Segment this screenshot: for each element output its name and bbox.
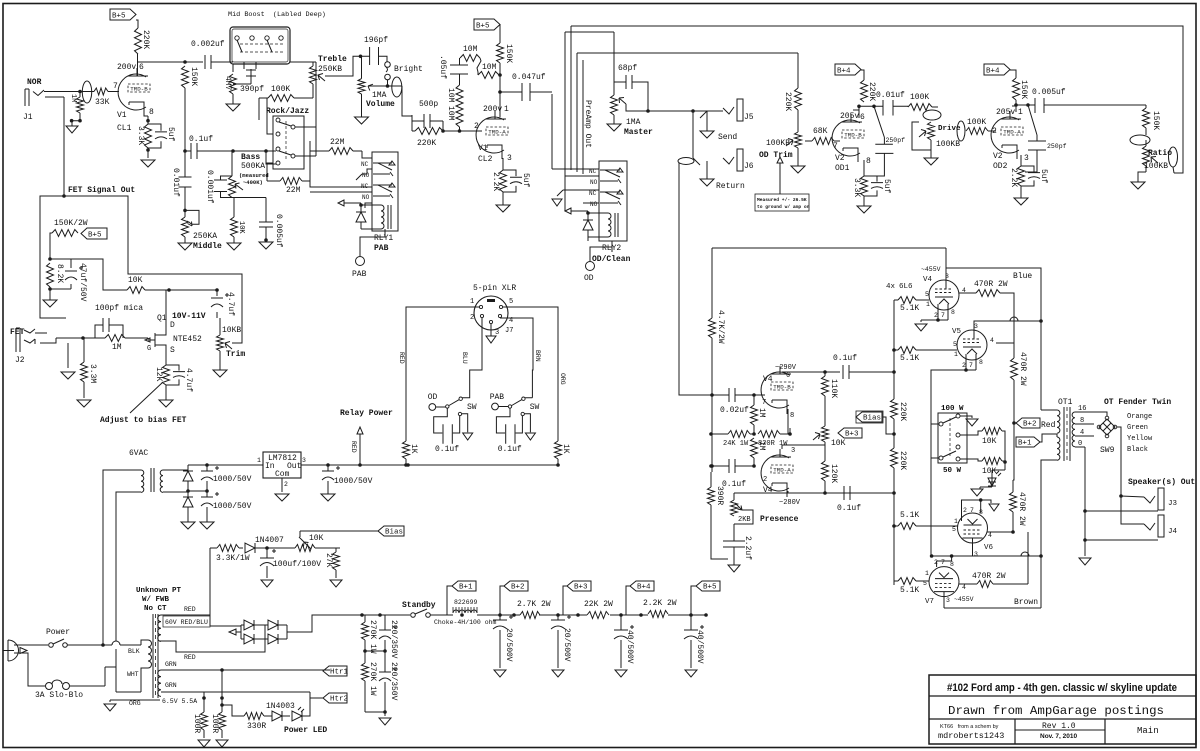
relay RLY2 box bbox=[599, 161, 627, 241]
tube V7 6L6 (inverted) bbox=[929, 567, 959, 597]
capacitor 4.7uf (fet out) bbox=[216, 290, 218, 318]
svg-text:100R: 100R bbox=[210, 714, 219, 733]
svg-text:J5: J5 bbox=[744, 113, 754, 122]
flag B+5 (fet) bbox=[81, 228, 107, 239]
wire B+5 to 220K bbox=[136, 20, 138, 28]
flag B+3 (supply) bbox=[567, 581, 591, 591]
sec taps bbox=[1075, 412, 1094, 540]
svg-text:W/ FWB: W/ FWB bbox=[142, 596, 170, 604]
svg-text:Yellow: Yellow bbox=[1127, 435, 1153, 443]
svg-text:RLY1: RLY1 bbox=[374, 234, 393, 243]
wire V5 plate bbox=[974, 321, 1041, 330]
ground (cap bottom) bbox=[200, 522, 214, 529]
RLY2 contacts bbox=[600, 170, 620, 203]
svg-text:10M: 10M bbox=[463, 45, 478, 54]
svg-text:ORG: ORG bbox=[129, 700, 141, 707]
ground (middle pot) bbox=[184, 237, 186, 243]
ground (master) bbox=[607, 124, 621, 131]
svg-text:In: In bbox=[265, 462, 275, 471]
capacitor 250pf (od2) bbox=[1025, 105, 1046, 172]
wire fuse right bbox=[70, 649, 141, 692]
resistor 2.2K 2W bbox=[648, 611, 668, 618]
LED (sw) bbox=[988, 478, 996, 487]
wire plate node right bbox=[185, 61, 203, 63]
switch levers bbox=[943, 417, 956, 457]
svg-text:FET: FET bbox=[10, 328, 25, 337]
tube V2 OD1 triode TRD-B bbox=[832, 120, 860, 156]
wire LM out rail bbox=[301, 464, 360, 466]
tube V1a triode TRD-B bbox=[118, 74, 146, 110]
svg-text:1N4007: 1N4007 bbox=[255, 536, 284, 545]
resistor 470R 2W (V4 screen) bbox=[976, 290, 1000, 297]
svg-text:0.01uf: 0.01uf bbox=[171, 168, 180, 197]
svg-text:5uf: 5uf bbox=[521, 173, 530, 188]
svg-text:1K: 1K bbox=[561, 444, 570, 454]
ground (20/500 1) bbox=[494, 670, 506, 677]
svg-text:220/350V: 220/350V bbox=[389, 662, 398, 701]
jack J5 Send bbox=[723, 107, 734, 114]
svg-text:B+4: B+4 bbox=[637, 584, 651, 592]
wire bias to bus bbox=[883, 417, 894, 434]
resistor 220K (V6/V7 grid lower) bbox=[891, 448, 898, 468]
svg-text:1M: 1M bbox=[757, 441, 766, 451]
ground (V1a cathode) bbox=[141, 160, 155, 167]
svg-text:8: 8 bbox=[1080, 417, 1084, 425]
resistor 150K (ratio top) bbox=[1143, 108, 1150, 128]
ground (V1b cathode) bbox=[496, 205, 510, 212]
box 2KB presence wiper bbox=[734, 510, 753, 524]
resistor 470R 2W (V5 screen vert) bbox=[1011, 358, 1018, 380]
title divider1 bbox=[929, 695, 1196, 697]
svg-text:Bias: Bias bbox=[385, 529, 403, 537]
wire od1 plate node bbox=[853, 106, 883, 118]
svg-text:8: 8 bbox=[951, 309, 955, 316]
svg-text:Q1: Q1 bbox=[157, 314, 167, 323]
flag Htr2 bbox=[323, 693, 347, 703]
svg-text:Htr2: Htr2 bbox=[330, 696, 348, 704]
plug AC power bbox=[3, 640, 19, 661]
svg-text:6: 6 bbox=[860, 113, 865, 122]
ground (LM7812) bbox=[281, 478, 283, 492]
svg-text:(measured: (measured bbox=[239, 172, 269, 179]
svg-text:40/500V: 40/500V bbox=[625, 630, 634, 664]
pot Master 1MA bbox=[611, 95, 618, 115]
svg-text:100R: 100R bbox=[192, 714, 201, 733]
svg-text:NOR: NOR bbox=[27, 78, 42, 87]
svg-text:0.001uf: 0.001uf bbox=[205, 170, 214, 204]
wire switch common bbox=[931, 424, 938, 458]
wire return line bbox=[693, 111, 700, 165]
svg-text:470R 2W: 470R 2W bbox=[1017, 492, 1026, 526]
resistor 390R bbox=[708, 487, 715, 505]
capacitor 220/350V (1) bbox=[379, 625, 397, 639]
diode D1 (relay supply) bbox=[183, 471, 193, 481]
svg-text:16: 16 bbox=[1078, 405, 1086, 413]
svg-text:10K: 10K bbox=[982, 467, 997, 476]
svg-text:10K: 10K bbox=[309, 534, 324, 543]
svg-text:10V-11V: 10V-11V bbox=[172, 312, 206, 321]
leader line adjust bbox=[130, 382, 163, 413]
svg-text:8: 8 bbox=[866, 157, 871, 166]
resistor 150K (od2 plate) bbox=[1013, 78, 1020, 100]
switch dashed bbox=[949, 418, 951, 458]
svg-text:mdroberts1243: mdroberts1243 bbox=[938, 731, 1004, 741]
fuse 3A Slo-Blo bbox=[46, 683, 53, 690]
svg-text:4.7K/2W: 4.7K/2W bbox=[716, 310, 725, 344]
resistor 470R 2W (V7 screen) bbox=[977, 581, 993, 588]
ground (ORG shield) bbox=[104, 704, 116, 711]
wire V4l plate bbox=[782, 442, 825, 449]
ground (trim) bbox=[213, 370, 227, 377]
svg-text:150K/2W: 150K/2W bbox=[54, 219, 88, 228]
wire bundle v571 bbox=[570, 26, 572, 166]
flag Htr1 bbox=[323, 666, 347, 676]
pot Trim 10KB bbox=[217, 335, 224, 351]
resistor 270K 1W (2) bbox=[362, 663, 369, 681]
V6 cathode bracket bbox=[962, 500, 981, 521]
svg-text:1MA: 1MA bbox=[372, 91, 387, 100]
ground (J2 sleeve) bbox=[67, 343, 69, 368]
resistor 100K (midboost) bbox=[268, 95, 294, 102]
svg-text:5: 5 bbox=[952, 526, 956, 533]
svg-text:Relay Power: Relay Power bbox=[340, 409, 393, 418]
transformer OT1 secondary bbox=[1072, 412, 1075, 447]
svg-text:B+4: B+4 bbox=[986, 68, 1000, 76]
svg-text:220K: 220K bbox=[417, 139, 436, 148]
flag Bias (pi) bbox=[856, 412, 882, 422]
wire master top bbox=[613, 32, 615, 82]
svg-text:B+2: B+2 bbox=[1023, 421, 1037, 429]
svg-text:Nov. 7, 2010: Nov. 7, 2010 bbox=[1040, 733, 1077, 740]
svg-text:TRD-B: TRD-B bbox=[844, 132, 862, 139]
svg-text:50 W: 50 W bbox=[943, 467, 962, 475]
wire FET box loop bbox=[40, 196, 242, 343]
J2 contacts bbox=[24, 329, 35, 344]
transformer 6VAC primary bbox=[141, 470, 144, 492]
resistor 1M (input) bbox=[77, 97, 84, 113]
svg-text:10K: 10K bbox=[237, 221, 245, 234]
ground (presence) bbox=[728, 565, 740, 572]
svg-text:1000/50V: 1000/50V bbox=[213, 502, 252, 511]
resistor 5.1K (V7 grid) bbox=[898, 578, 916, 585]
svg-text:J4: J4 bbox=[1168, 528, 1178, 536]
bridge output bbox=[287, 615, 362, 632]
svg-text:250KB: 250KB bbox=[318, 65, 342, 74]
svg-text:4M7: 4M7 bbox=[223, 76, 232, 91]
resistor 220K (V1a plate) bbox=[135, 28, 142, 54]
jack J2 FET input bbox=[16, 328, 20, 352]
svg-text:220K: 220K bbox=[898, 402, 907, 421]
svg-text:150K: 150K bbox=[189, 67, 198, 86]
svg-text:ORG: ORG bbox=[559, 373, 566, 385]
svg-text:OD/Clean: OD/Clean bbox=[592, 255, 631, 264]
resistor 1K (left) bbox=[403, 441, 410, 459]
svg-text:6: 6 bbox=[139, 63, 144, 72]
title divider2 bbox=[929, 718, 1196, 720]
svg-text:110K: 110K bbox=[829, 379, 838, 398]
svg-text:7: 7 bbox=[970, 507, 974, 514]
ground (8.2K) bbox=[49, 289, 51, 300]
svg-text:SW9: SW9 bbox=[1100, 446, 1115, 455]
svg-text:TRD-A: TRD-A bbox=[488, 129, 506, 136]
svg-text:1MA: 1MA bbox=[626, 118, 641, 127]
svg-text:8: 8 bbox=[979, 359, 983, 366]
svg-text:NO: NO bbox=[590, 179, 598, 186]
svg-text:3.3K/1W: 3.3K/1W bbox=[216, 554, 250, 563]
resistor 10M (lower) bbox=[478, 72, 499, 79]
svg-text:6VAC: 6VAC bbox=[129, 449, 148, 458]
flag B+4 (od2) bbox=[984, 64, 1010, 75]
svg-text:4.7uf: 4.7uf bbox=[226, 292, 235, 316]
wire V4 cathode bbox=[921, 304, 948, 320]
switch Bright bbox=[385, 62, 391, 68]
ground (bias cap) bbox=[261, 580, 273, 587]
svg-text:4: 4 bbox=[990, 337, 994, 344]
wire j4 tip bbox=[1121, 496, 1144, 524]
capacitor 0.01uf bbox=[179, 177, 192, 187]
svg-text:250KA: 250KA bbox=[193, 232, 217, 241]
resistor 5.1K (V6 grid) bbox=[898, 523, 916, 530]
wire 0.1uf bbox=[185, 88, 276, 177]
svg-text:3.3M: 3.3M bbox=[88, 364, 97, 383]
svg-text:Treble: Treble bbox=[318, 55, 347, 64]
capacitor .05uf bbox=[450, 65, 468, 74]
ratio wiper ellipse bbox=[1169, 147, 1178, 167]
svg-text:0.1uf: 0.1uf bbox=[722, 480, 746, 489]
RLY2 coil bbox=[608, 213, 611, 237]
capacitor 47uf/50V bbox=[50, 259, 71, 289]
resistor 2.7K 2W bbox=[520, 612, 540, 619]
svg-text:Middle: Middle bbox=[193, 242, 222, 251]
svg-text:J1: J1 bbox=[23, 113, 33, 122]
capacitor 500p + resistor 220K bbox=[415, 114, 443, 128]
svg-text:470R 2W: 470R 2W bbox=[974, 280, 1008, 289]
svg-text:1000/50V: 1000/50V bbox=[334, 477, 373, 486]
ground (drive) bbox=[924, 158, 938, 165]
flag B+5 (supply) bbox=[696, 581, 720, 591]
wire V4l cathode bbox=[788, 491, 894, 493]
svg-text:3.3K: 3.3K bbox=[136, 126, 145, 145]
pab sw circle4 bbox=[521, 412, 524, 415]
resistor 150K/2W bbox=[52, 230, 78, 237]
diode 1N4003 bbox=[272, 711, 282, 721]
svg-text:24K 1W: 24K 1W bbox=[723, 440, 749, 448]
bridge rectifier diodes bbox=[244, 620, 254, 630]
svg-text:GRN: GRN bbox=[165, 682, 177, 689]
svg-text:2: 2 bbox=[470, 314, 474, 322]
capacitor 0.1uf (od sw) bbox=[434, 408, 460, 444]
svg-text:5.1K: 5.1K bbox=[900, 354, 919, 363]
svg-text:120K: 120K bbox=[829, 464, 838, 483]
ground (D2) bbox=[187, 507, 189, 522]
wire b+5 v1b bbox=[499, 24, 501, 43]
capacitor 390pf bbox=[233, 69, 256, 84]
svg-text:1: 1 bbox=[954, 518, 958, 525]
svg-text:2.7K 2W: 2.7K 2W bbox=[517, 600, 551, 609]
svg-text:7: 7 bbox=[941, 312, 945, 319]
resistor 220K (V4/V5 grid upper) bbox=[891, 399, 898, 419]
svg-text:V2: V2 bbox=[835, 154, 845, 163]
wire rly2 to od circle bbox=[589, 252, 591, 261]
ground (0.005uf) bbox=[259, 242, 273, 249]
svg-text:NO: NO bbox=[362, 194, 370, 201]
resistor 1M (PI lower) bbox=[751, 438, 758, 458]
transformer OT1 core bbox=[1064, 407, 1070, 461]
svg-text:B+1: B+1 bbox=[459, 584, 473, 592]
resistor 150K (V1b plate) bbox=[497, 43, 504, 63]
svg-text:27K: 27K bbox=[324, 553, 333, 568]
svg-text:220K: 220K bbox=[898, 451, 907, 470]
svg-text:Drawn from AmpGarage postings: Drawn from AmpGarage postings bbox=[948, 704, 1164, 718]
svg-text:Unknown PT: Unknown PT bbox=[136, 587, 182, 595]
wire od1 out bbox=[893, 105, 908, 108]
svg-text:3: 3 bbox=[974, 323, 978, 330]
RLY2 diode bbox=[583, 220, 593, 230]
svg-text:10KB: 10KB bbox=[222, 326, 241, 335]
wire return bus down bbox=[679, 246, 712, 395]
pot 10K (bias) bbox=[295, 545, 315, 552]
svg-text:No CT: No CT bbox=[144, 605, 167, 613]
svg-text:0.047uf: 0.047uf bbox=[512, 73, 546, 82]
ground (100R 1) bbox=[198, 740, 210, 747]
wire rockjazz left bbox=[267, 98, 273, 181]
pot Drive 100KB bbox=[928, 122, 935, 140]
dot fet signal bbox=[62, 194, 66, 198]
svg-text:Green: Green bbox=[1127, 424, 1148, 432]
return contact bbox=[678, 158, 694, 165]
ground (od trim) bbox=[791, 166, 805, 173]
svg-text:60V RED/BLU: 60V RED/BLU bbox=[165, 619, 208, 626]
RLY1 coil bbox=[381, 205, 384, 229]
svg-text:390R: 390R bbox=[715, 486, 724, 505]
svg-text:200v: 200v bbox=[483, 105, 502, 114]
wire coil down OD bbox=[588, 237, 612, 252]
svg-text:5: 5 bbox=[925, 291, 929, 298]
svg-text:0.1uf: 0.1uf bbox=[837, 504, 861, 513]
wire sw9 tap16 bbox=[1094, 412, 1107, 416]
resistor 68K bbox=[812, 138, 834, 145]
midboost contacts bbox=[235, 36, 239, 40]
flag B+5 (V1 plate supply) bbox=[110, 9, 136, 20]
svg-text:J7: J7 bbox=[505, 327, 513, 335]
wire 100R taps bbox=[204, 670, 222, 712]
wire 10K right bbox=[145, 289, 217, 291]
svg-text:Power LED: Power LED bbox=[284, 726, 327, 735]
capacitor 0.1uf (PI lower in) bbox=[729, 459, 735, 473]
svg-text:KT66 from a schem by: KT66 from a schem by bbox=[940, 724, 999, 730]
svg-text:0.002uf: 0.002uf bbox=[191, 40, 225, 49]
svg-text:100uf/100V: 100uf/100V bbox=[273, 560, 321, 569]
ground (27K) bbox=[330, 580, 342, 587]
ground (40/500 1) bbox=[615, 670, 627, 677]
wire plug hot bbox=[14, 644, 48, 646]
svg-text:5: 5 bbox=[953, 341, 957, 348]
svg-text:NC: NC bbox=[361, 161, 369, 168]
capacitor 0.1uf (upper coupling) bbox=[843, 365, 849, 379]
capacitor 20/500V (1) bbox=[493, 615, 513, 629]
svg-text:2: 2 bbox=[284, 481, 288, 488]
midboost dashed link bbox=[240, 44, 285, 52]
svg-text:Com: Com bbox=[275, 470, 290, 479]
svg-text:5.1K: 5.1K bbox=[900, 511, 919, 520]
wire 0.005uf bbox=[265, 198, 267, 241]
svg-text:1M: 1M bbox=[69, 94, 77, 102]
resistor 5.1K (V4 grid) bbox=[898, 297, 916, 304]
svg-text:10M: 10M bbox=[446, 106, 455, 121]
resistor 4M7 bbox=[230, 74, 237, 94]
flag B+3 (pi) bbox=[838, 428, 862, 438]
pot Ratio 100KB bbox=[1143, 146, 1150, 166]
capacitor 100pf mica bbox=[95, 318, 123, 338]
jack J1 tip contact bbox=[33, 90, 44, 96]
transformer PT primary bbox=[148, 640, 152, 668]
LED power bbox=[292, 711, 302, 721]
svg-text:10K: 10K bbox=[831, 439, 846, 448]
svg-text:5uf: 5uf bbox=[882, 179, 891, 194]
svg-text:B+5: B+5 bbox=[88, 232, 102, 240]
wire RLY2 row feeds bbox=[552, 166, 599, 176]
resistor 33K (grid stopper) bbox=[94, 88, 108, 95]
switch Power bbox=[49, 643, 54, 648]
svg-text:2: 2 bbox=[934, 559, 938, 566]
Mid Boost switch box bbox=[230, 27, 290, 64]
capacitor 20/500V (2) bbox=[551, 615, 571, 629]
svg-text:40/500V: 40/500V bbox=[695, 630, 704, 664]
svg-text:68pf: 68pf bbox=[618, 64, 637, 73]
capacitor 0.005uf bbox=[259, 222, 273, 227]
jack J1 (NOR input) bbox=[25, 89, 29, 106]
svg-text:NO: NO bbox=[590, 201, 598, 208]
tube V6 6L6 (inverted) bbox=[958, 513, 988, 543]
svg-text:0.01uf: 0.01uf bbox=[876, 91, 905, 100]
wire od2 out to 150K bbox=[1044, 105, 1146, 108]
svg-text:220/350V: 220/350V bbox=[389, 620, 398, 659]
svg-text:Blue: Blue bbox=[1013, 272, 1032, 281]
svg-text:270K 1W: 270K 1W bbox=[368, 662, 377, 696]
title sub divider bbox=[1015, 729, 1105, 731]
midboost pins down bbox=[233, 62, 256, 72]
svg-text:FET Signal Out: FET Signal Out bbox=[68, 186, 135, 195]
ground (speaker) bbox=[1084, 540, 1086, 556]
wire bias tap bbox=[209, 548, 211, 615]
tube V2 OD2 triode TRD-A bbox=[991, 117, 1019, 153]
svg-text:7: 7 bbox=[113, 82, 118, 91]
wire 33K to grid bbox=[108, 91, 119, 93]
resistor 110K bbox=[822, 376, 829, 396]
svg-text:B+2: B+2 bbox=[511, 584, 525, 592]
svg-text:SW: SW bbox=[467, 403, 477, 412]
svg-text:Orange: Orange bbox=[1127, 413, 1152, 421]
wire neutral bbox=[14, 653, 45, 686]
svg-text:150K: 150K bbox=[1151, 111, 1160, 130]
rockjazz contacts bbox=[276, 118, 280, 122]
resistor 27K (bias) bbox=[333, 552, 340, 570]
drive wiper ellipse bbox=[957, 121, 965, 141]
wire V6 plate bbox=[932, 543, 1041, 556]
capacitor 0.02uf (PI in) bbox=[729, 388, 735, 402]
rail LM in bbox=[188, 464, 263, 466]
regulator LM7812 bbox=[263, 452, 301, 478]
dots heater bbox=[220, 668, 224, 672]
svg-text:10K: 10K bbox=[128, 276, 143, 285]
wire d1 node bbox=[187, 481, 189, 497]
note arrow bbox=[777, 157, 783, 194]
wire 0.002uf to midboost bbox=[211, 61, 233, 63]
wire bottom node bbox=[188, 490, 207, 492]
resistor 220K (od1 plate) bbox=[861, 80, 868, 102]
rockjazz levers bbox=[279, 122, 291, 155]
svg-text:100KB: 100KB bbox=[936, 140, 960, 149]
